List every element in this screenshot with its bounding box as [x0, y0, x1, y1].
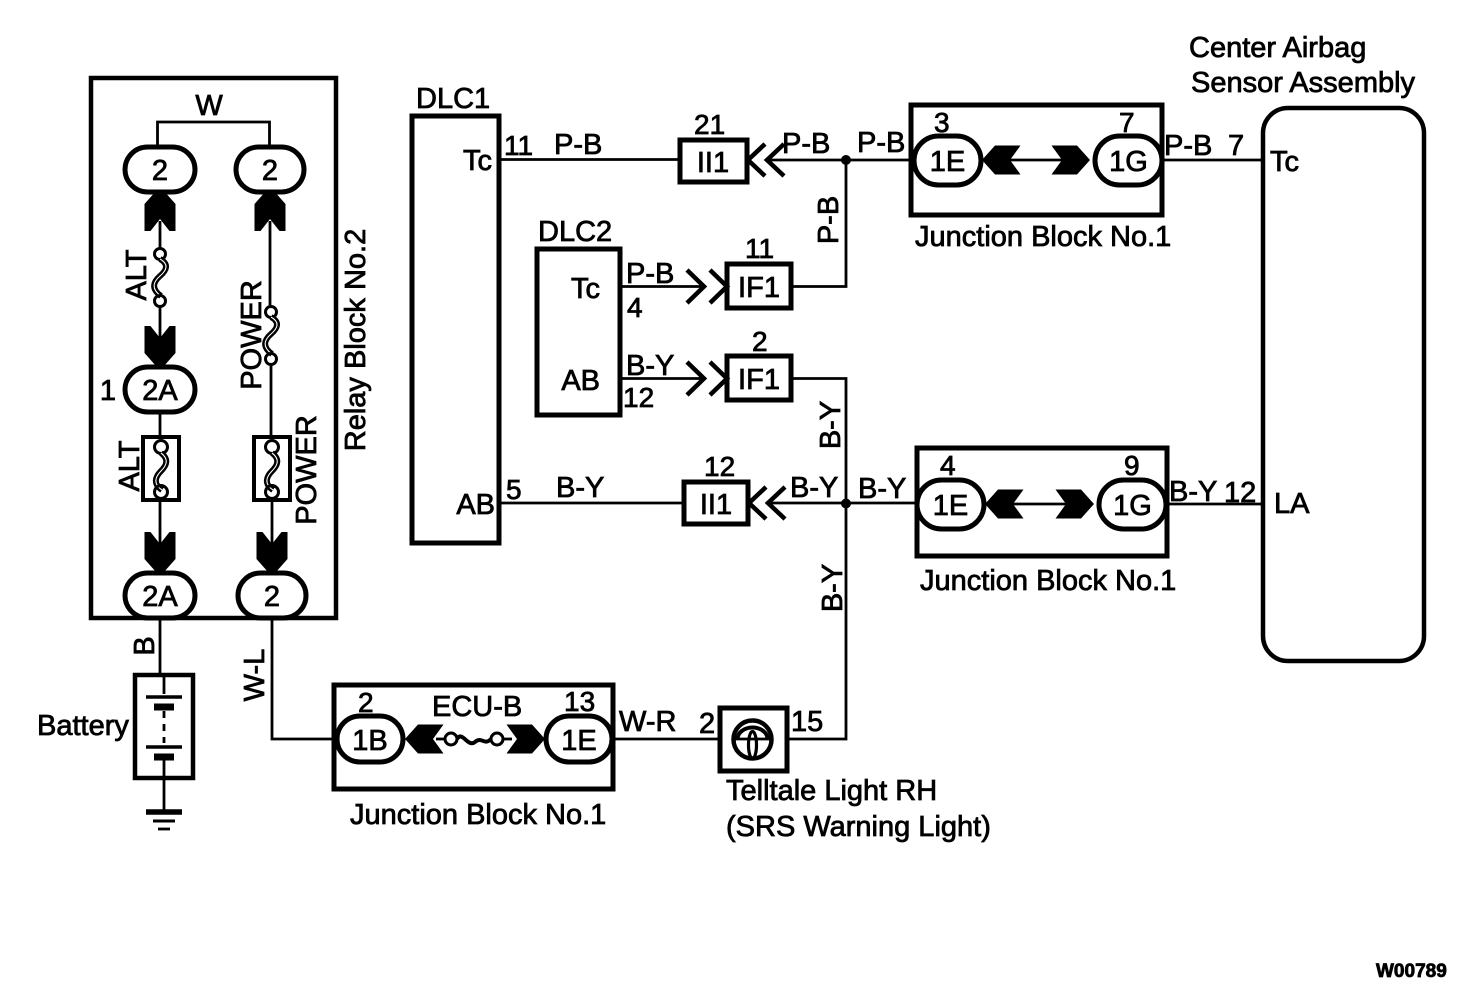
svg-text:W: W [195, 90, 223, 122]
wire [159, 221, 162, 249]
male connector arrow down to 2A bottom [145, 532, 176, 572]
fusible link POWER [266, 307, 277, 318]
connector 2 bottom [238, 573, 306, 618]
female chevrons II1 12 [749, 487, 766, 519]
connector IF1 (2) [727, 356, 791, 400]
node P-B junction [841, 155, 851, 165]
wire [159, 306, 162, 338]
wire W-L [272, 618, 336, 739]
female arrow left (right jb) [985, 490, 1024, 519]
connector 2A [125, 367, 195, 412]
svg-text:ALT: ALT [121, 249, 153, 300]
svg-text:2: 2 [752, 326, 768, 357]
svg-text:12: 12 [704, 451, 735, 482]
connector II1 (21) [680, 140, 747, 182]
svg-text:2: 2 [264, 581, 280, 613]
svg-text:IF1: IF1 [738, 272, 780, 304]
telltale light box [720, 708, 787, 771]
svg-text:Telltale Light RH: Telltale Light RH [726, 775, 937, 807]
wire W-R [612, 738, 722, 741]
wire IF1-2 to B-Y node [791, 379, 846, 504]
junction block no.1 bottom right box [917, 448, 1167, 556]
connector 1E (bottom jb) [546, 716, 612, 762]
svg-text:B-Y: B-Y [626, 350, 674, 382]
svg-text:Sensor Assembly: Sensor Assembly [1191, 67, 1416, 99]
svg-text:2A: 2A [142, 581, 178, 613]
svg-text:P-B: P-B [782, 128, 830, 160]
svg-text:2: 2 [358, 687, 374, 718]
svg-text:9: 9 [1124, 450, 1140, 481]
center airbag sensor assembly box [1263, 108, 1424, 661]
wire B battery [159, 618, 162, 675]
svg-text:DLC2: DLC2 [538, 216, 612, 248]
svg-text:B-Y: B-Y [858, 473, 906, 505]
svg-text:P-B: P-B [813, 196, 845, 244]
fuse POWER box [254, 437, 290, 500]
svg-text:B-Y: B-Y [817, 564, 849, 612]
svg-text:P-B: P-B [554, 129, 602, 161]
connector 1E (top) [914, 136, 981, 185]
svg-text:1G: 1G [1109, 146, 1148, 178]
DLC2 box [537, 249, 620, 415]
wire between arrows [1010, 159, 1062, 162]
wire [159, 412, 162, 437]
connector 2A bottom [125, 573, 195, 618]
svg-text:B-Y: B-Y [1169, 476, 1217, 508]
svg-text:1B: 1B [352, 725, 387, 757]
svg-text:LA: LA [1274, 488, 1310, 520]
male connector arrow down to 2A [145, 326, 176, 366]
svg-text:POWER: POWER [236, 280, 268, 390]
lamp symbol [734, 721, 772, 759]
svg-text:12: 12 [1224, 477, 1256, 509]
fusible link ALT [155, 249, 166, 260]
svg-text:DLC1: DLC1 [416, 83, 490, 115]
svg-text:4: 4 [627, 292, 643, 323]
fuse ECU-B [436, 738, 446, 741]
svg-text:2: 2 [262, 155, 278, 187]
junction block no.1 top box [911, 105, 1162, 215]
female arrow left (ecu-b) [405, 725, 444, 754]
svg-text:(SRS Warning Light): (SRS Warning Light) [726, 811, 991, 843]
svg-text:Tc: Tc [463, 145, 492, 177]
male connector arrow down to 2 bottom [257, 532, 288, 572]
wire B-Y node down to telltale [787, 504, 846, 740]
svg-text:1E: 1E [561, 725, 596, 757]
battery box [135, 675, 193, 778]
male chevrons to IF1 11 [687, 270, 704, 303]
battery cell symbol [163, 675, 166, 694]
svg-text:Center Airbag: Center Airbag [1189, 32, 1366, 64]
wire DLC2 Tc [620, 285, 701, 288]
svg-text:Relay Block No.2: Relay Block No.2 [340, 229, 372, 451]
svg-text:4: 4 [940, 450, 956, 481]
wire [159, 500, 162, 545]
male arrow right (top jb) [1052, 146, 1091, 175]
svg-text:W-L: W-L [239, 649, 271, 702]
connector 1B [337, 716, 403, 762]
wire to B-Y node [768, 502, 917, 505]
svg-text:11: 11 [745, 233, 774, 264]
female chevrons II1 [748, 144, 765, 176]
connector 1G (top) [1095, 136, 1162, 185]
connector II1 (12) [684, 482, 748, 524]
svg-text:POWER: POWER [291, 415, 323, 525]
svg-text:Junction Block No.1: Junction Block No.1 [920, 565, 1176, 597]
wire [271, 500, 274, 545]
wire to P-B node [767, 159, 911, 162]
svg-text:AB: AB [561, 365, 600, 397]
wire W-L into ECU-B jb / junction block no.1 bottom box [334, 685, 613, 789]
relay block No.2 outline [91, 78, 336, 618]
connector IF1 [727, 264, 791, 308]
svg-text:B-Y: B-Y [556, 472, 604, 504]
svg-text:W00789: W00789 [1376, 961, 1447, 982]
svg-text:B: B [129, 636, 161, 655]
svg-text:ECU-B: ECU-B [432, 691, 522, 723]
svg-text:13: 13 [564, 686, 595, 717]
male connector arrow up POWER [255, 191, 286, 231]
svg-text:15: 15 [791, 706, 823, 738]
svg-text:7: 7 [1119, 107, 1135, 138]
wire IF1 to P-B node [791, 160, 846, 287]
male arrow right (right jb) [1056, 490, 1095, 519]
svg-text:5: 5 [506, 474, 522, 505]
svg-text:2: 2 [152, 155, 168, 187]
wire [270, 364, 273, 437]
svg-text:II1: II1 [697, 147, 729, 179]
node B-Y junction [841, 499, 851, 509]
connector 2 (POWER top) [236, 147, 304, 192]
female arrow left (top jb) [982, 146, 1021, 175]
svg-text:ALT: ALT [114, 440, 146, 491]
wire 1G to sensor LA [1167, 503, 1264, 506]
wire 1G to sensor [1162, 159, 1264, 162]
svg-text:IF1: IF1 [738, 364, 780, 396]
wire between arrows [1013, 503, 1066, 506]
fuse ALT box [143, 437, 179, 500]
svg-text:W-R: W-R [619, 706, 676, 738]
svg-text:Junction Block No.1: Junction Block No.1 [915, 221, 1171, 253]
wire DLC2 AB [620, 377, 701, 380]
svg-text:P-B: P-B [857, 127, 905, 159]
wire [269, 221, 272, 307]
svg-text:B-Y: B-Y [790, 472, 838, 504]
svg-text:2: 2 [699, 708, 715, 740]
connector 1G (right jb) [1099, 480, 1166, 529]
ground [146, 809, 182, 815]
svg-text:P-B: P-B [1164, 130, 1212, 162]
DLC1 box [412, 116, 499, 543]
svg-text:Battery: Battery [37, 710, 129, 742]
svg-text:1: 1 [100, 375, 116, 407]
connector 1E (right jb) [917, 480, 984, 529]
connector 2 (ALT top) [125, 147, 195, 192]
wire W jumper [158, 122, 270, 147]
svg-text:11: 11 [504, 130, 533, 161]
svg-text:Tc: Tc [1270, 146, 1299, 178]
svg-text:AB: AB [456, 489, 495, 521]
svg-text:1E: 1E [933, 490, 968, 522]
svg-text:B-Y: B-Y [815, 401, 847, 449]
svg-text:1G: 1G [1113, 490, 1152, 522]
svg-text:1E: 1E [930, 146, 965, 178]
svg-text:12: 12 [623, 382, 654, 413]
male chevrons to IF1 2 [687, 362, 704, 395]
svg-text:3: 3 [934, 107, 950, 138]
svg-text:21: 21 [694, 109, 725, 140]
wire AB B-Y [499, 502, 686, 505]
svg-text:Junction Block No.1: Junction Block No.1 [350, 799, 606, 831]
svg-text:2A: 2A [142, 375, 178, 407]
wire Tc P-B [499, 158, 682, 161]
male connector arrow up ALT [145, 191, 176, 231]
svg-text:II1: II1 [700, 489, 732, 521]
svg-text:7: 7 [1228, 130, 1244, 162]
svg-text:P-B: P-B [626, 258, 674, 290]
male arrow right (ecu-b) [507, 725, 546, 754]
svg-text:Tc: Tc [571, 273, 600, 305]
